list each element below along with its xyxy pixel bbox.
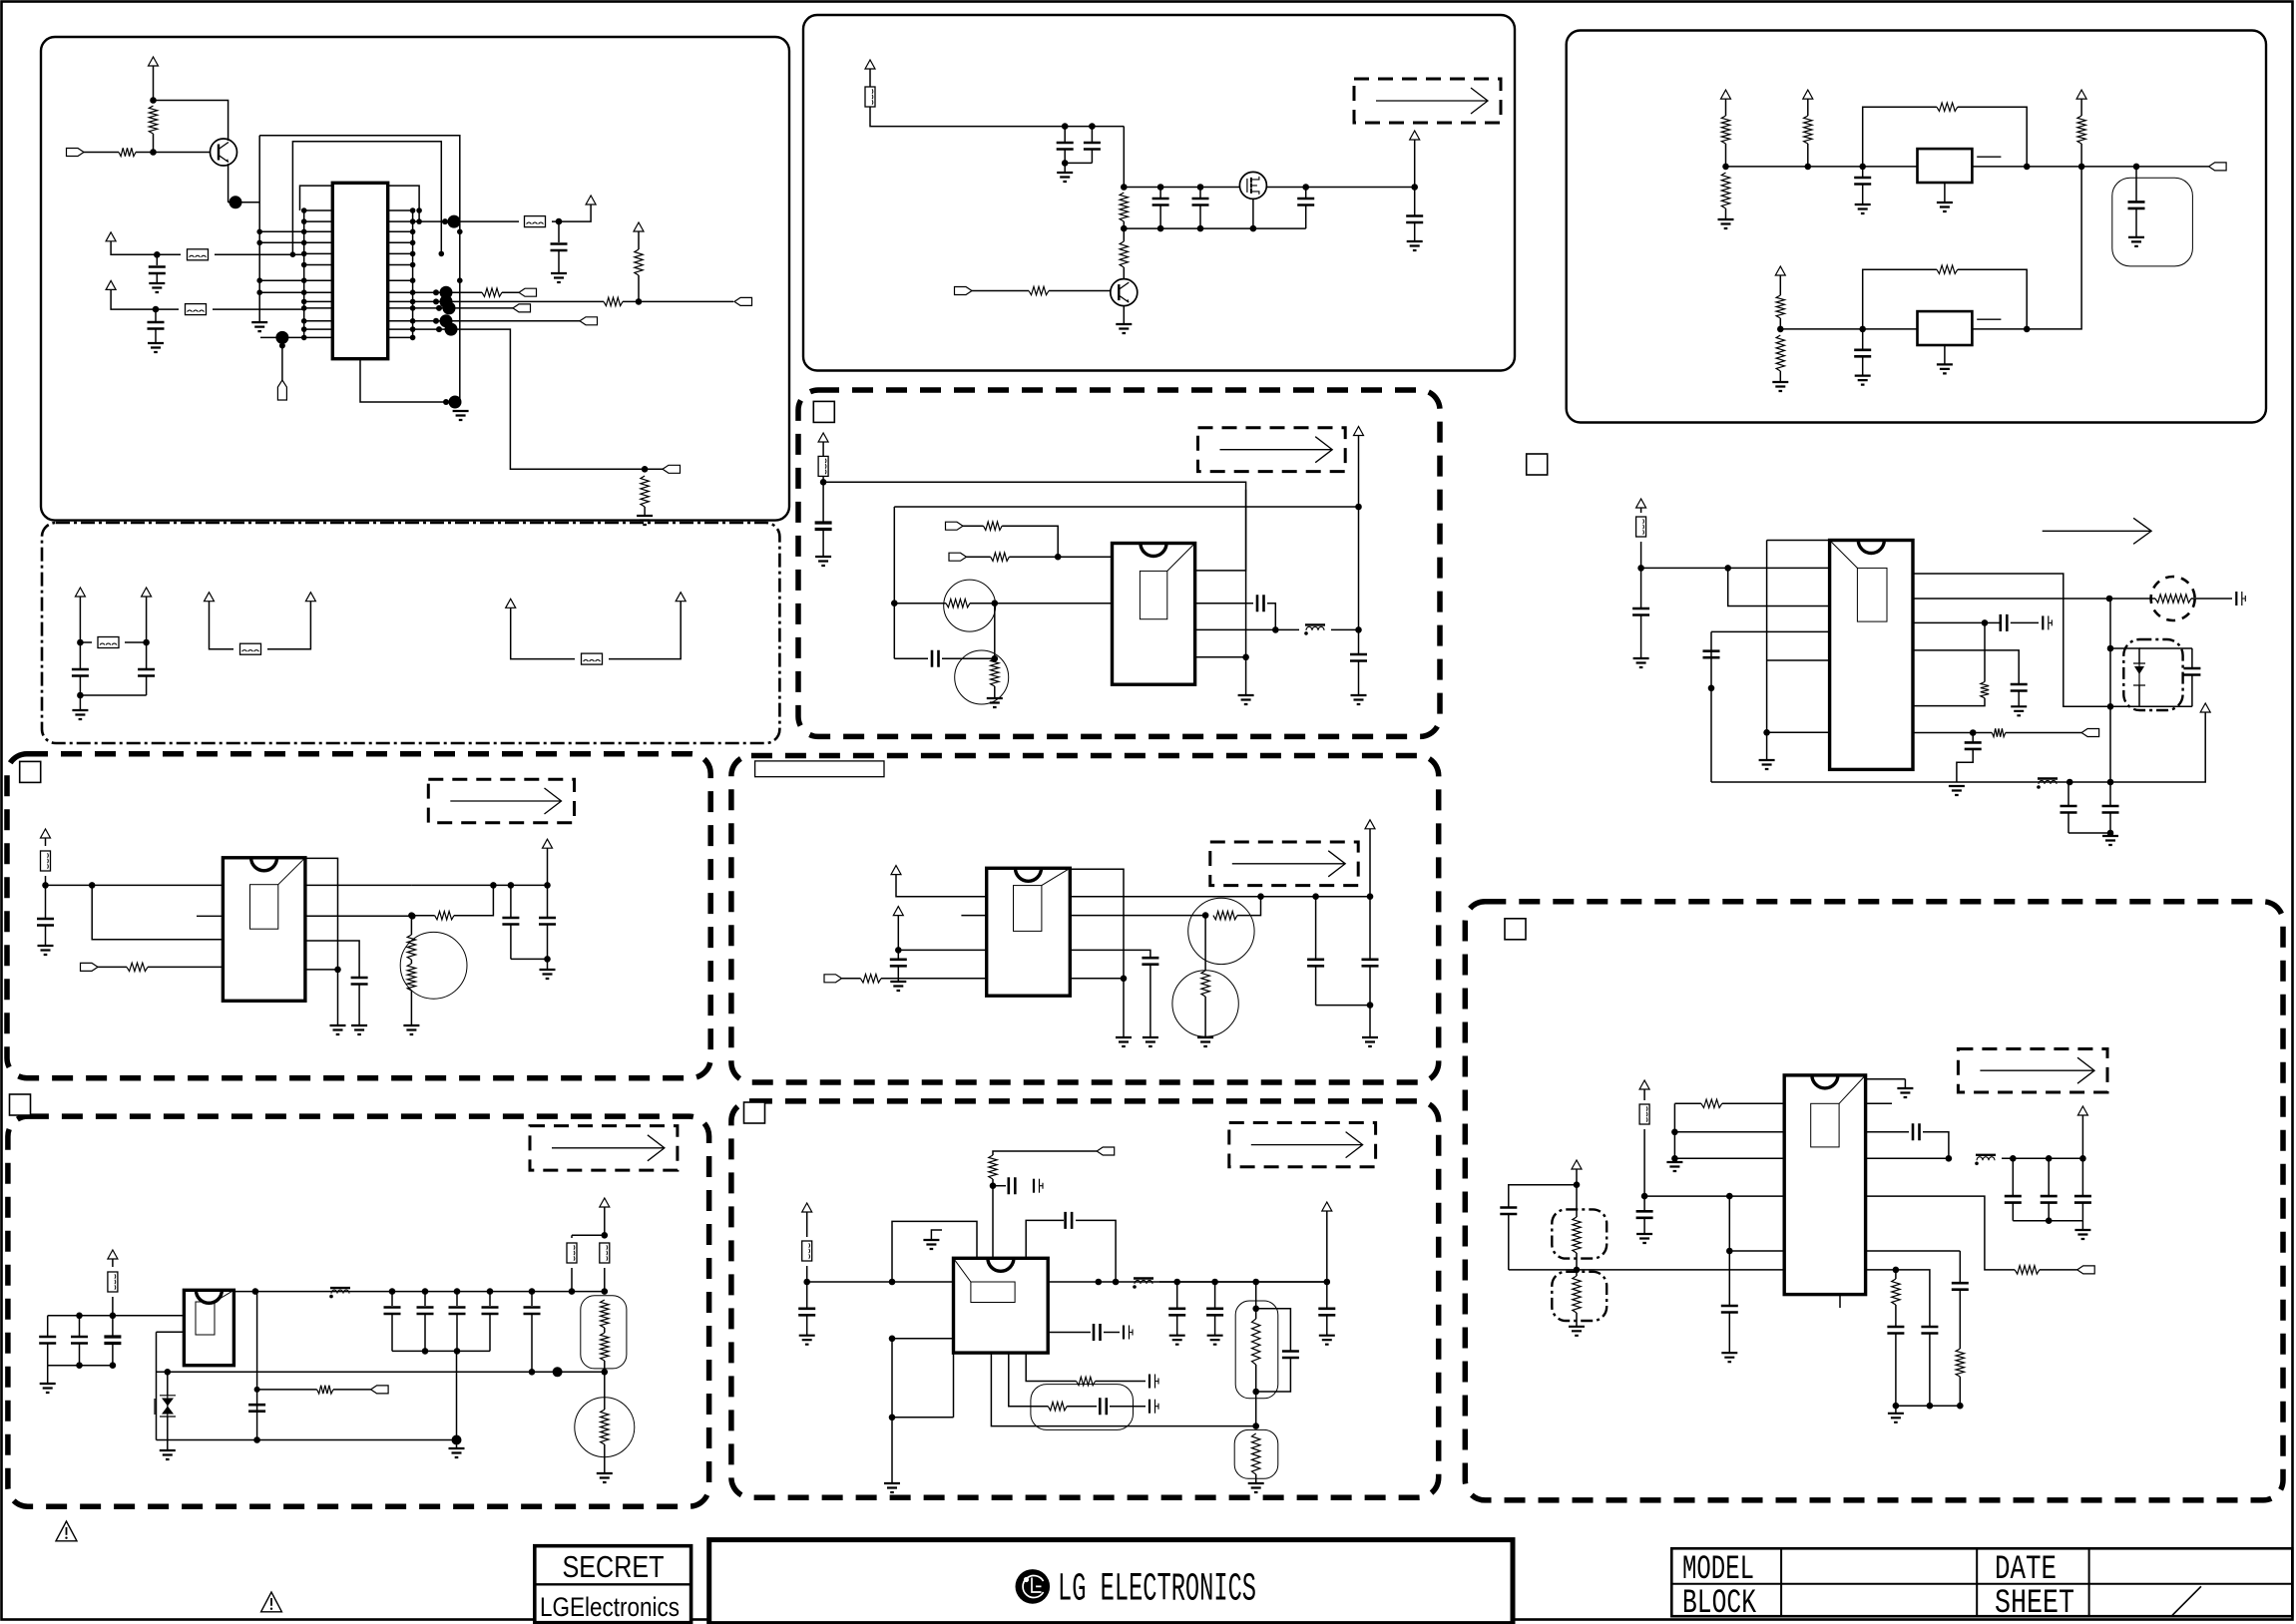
- ground (C7): [351, 1025, 367, 1034]
- wire R5 to row: [638, 275, 640, 301]
- net tag out4: [580, 317, 598, 325]
- wire RP2 dn: [1255, 1365, 1257, 1426]
- wire R15 dn: [1123, 221, 1125, 228]
- wire to C39: [1326, 1282, 1328, 1308]
- wire cap dn: [112, 1344, 114, 1366]
- capacitor C27: [1257, 595, 1264, 611]
- wire C63 dn: [1895, 1334, 1897, 1407]
- capacitor C1: [149, 267, 166, 274]
- wire FB4: [125, 641, 147, 643]
- sheet reference (block F): [813, 401, 834, 422]
- wire G out: [1369, 829, 1371, 897]
- wire cap bus dn: [456, 1351, 458, 1439]
- wire R39 to pin: [1913, 698, 1985, 706]
- wire U3 col dn: [156, 1332, 158, 1439]
- ground (col F): [1238, 695, 1254, 704]
- wire to C24: [1414, 188, 1416, 215]
- wire U1 right pin y302: [388, 300, 413, 302]
- junction: [1763, 729, 1770, 736]
- wire gnd J4: [1895, 1406, 1897, 1414]
- wire U2 top-right down: [305, 858, 338, 1011]
- ground (C47): [2128, 237, 2144, 246]
- wire FB3 to pwr: [552, 204, 591, 221]
- wire cap join J: [2013, 1220, 2082, 1222]
- wire cap dn 426: [424, 1314, 426, 1351]
- wire to C3: [558, 221, 560, 242]
- wire F1: [822, 442, 824, 456]
- wire to cap 2017: [2012, 1158, 2014, 1195]
- junction: [1671, 1129, 1678, 1136]
- wire to vertical tag: [281, 337, 283, 380]
- wire U10 stub r: [1866, 1102, 1892, 1104]
- wire RC mid: [1067, 1406, 1097, 1408]
- wire gnd stub: [1904, 1079, 1906, 1088]
- wire to zener: [167, 1372, 169, 1396]
- junction: [439, 251, 445, 257]
- wire RP1 mid: [604, 1328, 606, 1333]
- junction: [1641, 1193, 1648, 1200]
- wire RC out: [1110, 1406, 1146, 1408]
- wire Q2 source: [1252, 199, 1254, 228]
- power flag D2: [600, 1198, 610, 1207]
- wire gnd J: [1673, 1158, 1675, 1162]
- wire R35 dn: [1779, 318, 1781, 329]
- wire U6 fb: [991, 1353, 1255, 1426]
- wire to cap x47: [47, 1316, 49, 1336]
- junction: [1157, 225, 1164, 232]
- voltage regulator U8 (block I): [1918, 311, 1973, 345]
- resistor R45: [1956, 1349, 1964, 1377]
- wire to gnd: [79, 695, 81, 710]
- wire to cap D3: [112, 1316, 114, 1336]
- resistor R17: [1029, 286, 1049, 294]
- wire to FB1: [157, 253, 181, 255]
- ground (Q3): [1116, 324, 1132, 333]
- wire to C21: [1159, 188, 1161, 199]
- wire U1 right pin y293: [388, 291, 413, 293]
- junction: [454, 1348, 461, 1355]
- wire C55 dn: [2191, 675, 2193, 707]
- wire U1 left pin y293: [304, 291, 333, 293]
- ferrite bead FB2: [186, 304, 207, 315]
- wire R41 to U10: [1722, 1102, 1785, 1104]
- junction: [1367, 1002, 1374, 1009]
- wire gnd join: [456, 1440, 458, 1449]
- wire G2 to U5: [898, 916, 986, 951]
- wire R25 to U6: [992, 1179, 994, 1258]
- resistor R2: [119, 148, 136, 156]
- wire FB15 dn: [1643, 1129, 1645, 1196]
- dashed resistor pack DR3 (block J): [1552, 1272, 1607, 1321]
- wire FB9 dn: [571, 1268, 573, 1292]
- wire to C33: [993, 1185, 1006, 1187]
- wire cap dn x47: [47, 1344, 49, 1366]
- capacitor C39: [1318, 1309, 1335, 1316]
- junction (emitter node): [230, 196, 242, 208]
- ferrite bead FB15: [1639, 1104, 1649, 1124]
- wire C6 gnd: [45, 926, 47, 947]
- wire DZ1 dn: [2110, 685, 2139, 706]
- wire C36 dn: [1076, 1220, 1116, 1282]
- wire to C60: [1509, 1185, 1577, 1207]
- resistor R26 (RP2): [1252, 1319, 1260, 1365]
- ferrite bead FB8: [108, 1272, 118, 1292]
- wire gnd-bus tap y232: [259, 230, 304, 232]
- junction: [301, 207, 307, 213]
- wire row330 to bottom: [413, 329, 645, 469]
- capacitor C7: [1168, 1309, 1185, 1316]
- wire C51 out: [2011, 621, 2039, 623]
- wire fb2 up: [1863, 269, 1937, 329]
- wire R20 to U4: [970, 603, 1113, 605]
- wire left col F: [893, 507, 895, 658]
- wire row309: [413, 307, 513, 309]
- wire R31 gnd: [1725, 208, 1727, 219]
- junction: [529, 1288, 536, 1295]
- ground C6: [38, 946, 54, 955]
- wire to R13: [604, 1372, 606, 1410]
- junction: [2106, 596, 2113, 603]
- wire R14 tag: [333, 1389, 371, 1391]
- block frame: regulator 3: [798, 390, 1440, 736]
- junction: [1157, 184, 1164, 191]
- wire C4: [79, 676, 81, 696]
- wire U7 gnd: [1944, 183, 1946, 203]
- wire FB6: [609, 602, 681, 659]
- junction: [301, 326, 307, 332]
- wire R1 to base node: [153, 134, 155, 153]
- power flag R2: [2200, 703, 2210, 712]
- wire E1: [869, 69, 871, 88]
- net tag input (block E): [955, 287, 973, 295]
- wire C8 down: [510, 925, 512, 960]
- wire to C19: [1064, 127, 1066, 142]
- net tag (vertical): [277, 380, 286, 400]
- power flag C1: [41, 829, 51, 838]
- junction: [454, 1288, 461, 1295]
- ground (col R2): [1759, 760, 1775, 769]
- ground (R6): [637, 516, 653, 525]
- wire C56 dn: [2067, 813, 2069, 834]
- junction: [1957, 1403, 1964, 1410]
- resistor R35: [1776, 295, 1784, 318]
- capacitor C56: [2061, 806, 2077, 813]
- wire FB12 dn: [822, 476, 824, 482]
- junction: [301, 289, 307, 295]
- wire to RT upper: [410, 916, 412, 935]
- wire col G gnd: [1123, 979, 1125, 1037]
- junction: [1982, 619, 1989, 626]
- resistor R20 (TH3): [946, 600, 970, 608]
- wire H1: [806, 1212, 808, 1237]
- junction: [416, 218, 422, 224]
- resistor R18: [984, 522, 1003, 530]
- resistor R44: [2015, 1266, 2040, 1274]
- wire R36 gnd: [1779, 371, 1781, 382]
- junction: [602, 1369, 609, 1376]
- wire C17 dn: [531, 1314, 533, 1372]
- capacitor C50 stub: [2236, 592, 2245, 606]
- wire C55 up: [2191, 648, 2193, 668]
- wire R2 to Q1 base: [136, 152, 211, 154]
- wire pin r2: [1866, 1131, 1909, 1133]
- ground (C9): [540, 970, 556, 979]
- wire C58 gnd: [1643, 1218, 1645, 1234]
- net tag out5: [663, 465, 681, 473]
- power flag F1: [818, 433, 828, 442]
- wire U1 right pin y338: [388, 336, 413, 338]
- junction: [2046, 1155, 2053, 1162]
- capacitor C28: [1350, 654, 1367, 661]
- wire to C31: [1315, 897, 1317, 959]
- junction: [77, 692, 84, 699]
- wire row to out: [1401, 187, 1415, 189]
- wire R22 to U5: [881, 978, 987, 980]
- junction: [410, 262, 416, 268]
- junction: [508, 882, 515, 889]
- wire R23 up: [1237, 897, 1261, 916]
- junction: [433, 298, 439, 304]
- capacitor C30: [1142, 958, 1158, 965]
- junction (row 321): [440, 314, 453, 327]
- junction: [1722, 164, 1729, 171]
- thermistor TH5 (block G): [1188, 898, 1254, 964]
- sheet reference (block H): [744, 1102, 765, 1123]
- wire col H2: [892, 1417, 954, 1419]
- wire junction to C: [156, 254, 158, 265]
- junction: [1671, 1155, 1678, 1162]
- ferrite bead FB4: [98, 637, 119, 648]
- wire U5 top right: [1070, 869, 1124, 979]
- wire U10 pin r to node: [1866, 1269, 1896, 1271]
- junction: [992, 655, 999, 662]
- wire C27 dn: [1267, 604, 1275, 630]
- wire tag to R2: [84, 152, 119, 154]
- wire U2 pin2 stub: [197, 915, 223, 917]
- wire H2: [1326, 1211, 1328, 1282]
- wire to C9: [547, 885, 549, 917]
- wire U5 pin2 stub: [961, 915, 986, 917]
- capacitor C5: [138, 669, 155, 676]
- power flag H2: [1322, 1202, 1332, 1211]
- resistor R23 (TH5): [1213, 911, 1237, 919]
- tab mark U7: [1977, 156, 2001, 158]
- wire U1 left pin y338: [304, 336, 333, 338]
- wire R13 gnd: [604, 1444, 606, 1473]
- junction: [1355, 626, 1362, 633]
- net tag (block D): [371, 1386, 389, 1394]
- wire U2 out rail: [305, 884, 412, 886]
- net tag input (block A): [67, 149, 85, 157]
- svg-text:DATE: DATE: [1995, 1551, 2057, 1589]
- capacitor C46: [1854, 178, 1871, 185]
- wire cap dn x79: [79, 1344, 81, 1366]
- ground (C28): [1351, 695, 1367, 704]
- ground (G caps): [1362, 1037, 1378, 1046]
- wire tag to R25: [993, 1151, 1097, 1155]
- resistor R24 (TH6): [1201, 971, 1209, 997]
- IC U6 (block H converter): [954, 1258, 1049, 1353]
- wire C18 column: [256, 1292, 258, 1440]
- capacitor C10: [2041, 1196, 2058, 1203]
- junction: [1893, 1267, 1900, 1274]
- resistor R3: [482, 288, 502, 296]
- ground (C58): [1636, 1234, 1652, 1243]
- ground (col H): [884, 1483, 900, 1492]
- junction: [410, 218, 416, 224]
- junction: [1726, 1248, 1733, 1255]
- thermistor TH4 (block F): [955, 650, 1009, 704]
- wire rail H: [807, 1281, 954, 1283]
- wire RT mid: [410, 960, 412, 964]
- wire col J2: [1728, 1196, 1730, 1251]
- wire U1 left pin y308: [304, 307, 333, 309]
- inductor L4 (right): [2037, 779, 2058, 789]
- wire pin l3: [1674, 1157, 1784, 1159]
- wire pin l4: [1644, 1195, 1784, 1197]
- wire main row E: [1124, 187, 1401, 189]
- junction: [443, 399, 449, 405]
- wire feedback rail D: [157, 1371, 605, 1373]
- wire U9 pin r2: [1913, 621, 1985, 623]
- wire FB10 up: [604, 1235, 606, 1238]
- wire bead l: [571, 1235, 573, 1238]
- resistor R40: [1992, 728, 2006, 736]
- net tag (block J): [2077, 1266, 2095, 1274]
- capacitor C33: [1009, 1177, 1016, 1194]
- capacitor C6: [482, 1308, 499, 1315]
- junction: [529, 1369, 536, 1376]
- junction: [1257, 893, 1264, 900]
- wire pwr out: [547, 848, 549, 885]
- junction: [487, 1288, 494, 1295]
- wire FB5: [267, 602, 310, 649]
- wire U1 left pin y265: [304, 264, 333, 266]
- ground (C1): [149, 283, 165, 292]
- junction: [253, 1436, 260, 1443]
- wire C5: [146, 676, 148, 696]
- capacitor C23: [1297, 199, 1314, 205]
- capacitor C55: [2183, 668, 2200, 675]
- wire C26 to TH4: [942, 657, 995, 659]
- wire C49 gnd: [1640, 615, 1642, 659]
- wire reg1 in: [1726, 166, 1918, 168]
- junction: [153, 306, 160, 313]
- wire left ground bus: [258, 136, 260, 322]
- capacitor C35: [798, 1309, 815, 1316]
- capacitor C3: [384, 1308, 401, 1315]
- wire U9 top in: [1767, 540, 1830, 542]
- svg-text:LGElectronics: LGElectronics: [540, 1592, 680, 1622]
- wire C9 down: [547, 925, 549, 960]
- ground (U8): [1937, 364, 1953, 373]
- net tag input (block C): [81, 963, 99, 971]
- block frame: regulator 4: [731, 756, 1439, 1083]
- junction: [1062, 160, 1069, 167]
- capacitor C24: [1406, 216, 1423, 223]
- wire C29 gnd: [897, 966, 899, 982]
- resistor R41: [1701, 1099, 1722, 1107]
- wire C47 gnd: [2135, 208, 2137, 237]
- wire R21 gnd: [994, 686, 996, 698]
- wire to C59: [1728, 1251, 1730, 1305]
- wire top rail F: [823, 482, 1246, 571]
- junction: [820, 479, 827, 486]
- resistor R13 (TH2): [601, 1410, 609, 1444]
- wire bottom bus R: [1711, 781, 2110, 783]
- wire R19 to U4: [1009, 556, 1112, 558]
- wire to C22: [1199, 188, 1201, 199]
- wire fb2 dn: [1958, 269, 2027, 329]
- wire C22 dn: [1199, 205, 1201, 229]
- junction: [2079, 1155, 2086, 1162]
- ground (C30): [1143, 1037, 1158, 1046]
- junction (row 309): [443, 301, 456, 314]
- junction: [895, 947, 902, 954]
- wire pin r5: [1866, 1250, 1961, 1252]
- resistor R7: [127, 963, 148, 971]
- wire B2: [146, 597, 148, 642]
- capacitor C45 stub: [1124, 1326, 1133, 1340]
- wire fb1 dn: [1958, 107, 2027, 167]
- wire DR2 up: [1576, 1185, 1578, 1217]
- dashed zener pack DZ1: [2123, 639, 2182, 710]
- net tag out3: [513, 304, 531, 312]
- resistor R25: [989, 1155, 997, 1179]
- wire R40 to tag: [2006, 732, 2081, 734]
- junction: [301, 335, 307, 341]
- ground (C25): [815, 557, 831, 566]
- junction: [1211, 1279, 1218, 1286]
- junction: [2107, 645, 2114, 652]
- wire D pwr: [112, 1259, 114, 1267]
- power flag E1: [865, 60, 875, 69]
- wire U1 left pin y254: [304, 252, 333, 254]
- capacitor C18: [248, 1405, 265, 1412]
- wire C59 gnd: [1728, 1313, 1730, 1354]
- wire out col: [2109, 599, 2111, 782]
- junction: [301, 229, 307, 235]
- junction: [569, 1288, 576, 1295]
- power flag VCC (block A): [149, 57, 159, 66]
- junction: [334, 967, 341, 974]
- junction: [1893, 1403, 1900, 1410]
- ground (D caps): [40, 1384, 56, 1393]
- wire reg2 out up: [1972, 167, 2081, 329]
- wire R39 up: [1984, 622, 1986, 681]
- junction: [165, 1369, 172, 1376]
- ground (col G): [1116, 1037, 1132, 1046]
- net tag out (block I): [2209, 163, 2227, 171]
- wire pin l5: [1729, 1250, 1784, 1252]
- junction: [1121, 225, 1128, 232]
- junction: [1302, 184, 1309, 191]
- capacitor C58: [1636, 1211, 1653, 1218]
- power flag I4: [1775, 266, 1785, 275]
- ground (C49): [1633, 658, 1649, 667]
- wire U10 out: [1866, 1157, 1949, 1159]
- junction (bead row): [448, 215, 461, 228]
- wire FB11 rail: [870, 107, 1124, 127]
- wire R3 to tag: [502, 291, 519, 293]
- junction: [410, 299, 416, 305]
- junction: [410, 207, 416, 213]
- junction: [2107, 779, 2114, 786]
- wire U9 pin r3: [1913, 650, 2019, 683]
- resistor R4: [604, 297, 623, 305]
- wire I3: [2080, 99, 2082, 116]
- signal-flow arrow (right): [2043, 518, 2151, 544]
